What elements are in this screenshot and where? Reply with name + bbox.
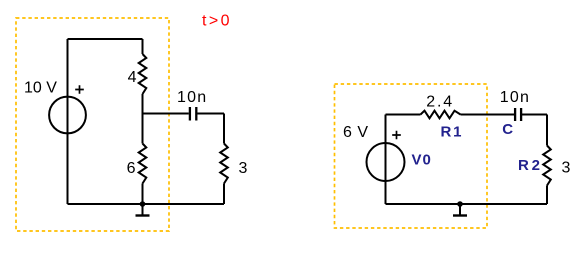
svg-text:6 V: 6 V [343, 124, 369, 141]
svg-text:C: C [502, 121, 513, 138]
svg-text:2.4: 2.4 [426, 94, 454, 111]
svg-text:3: 3 [562, 160, 571, 177]
svg-text:6: 6 [127, 160, 136, 177]
svg-text:V0: V0 [412, 151, 432, 168]
svg-text:4: 4 [128, 69, 137, 86]
svg-text:10n: 10n [500, 89, 530, 106]
svg-text:10n: 10n [177, 89, 207, 106]
svg-text:R1: R1 [441, 124, 464, 141]
svg-text:10 V: 10 V [24, 80, 57, 97]
svg-text:3: 3 [239, 160, 248, 177]
svg-text:t>0: t>0 [202, 13, 232, 30]
svg-text:R2: R2 [518, 157, 543, 174]
